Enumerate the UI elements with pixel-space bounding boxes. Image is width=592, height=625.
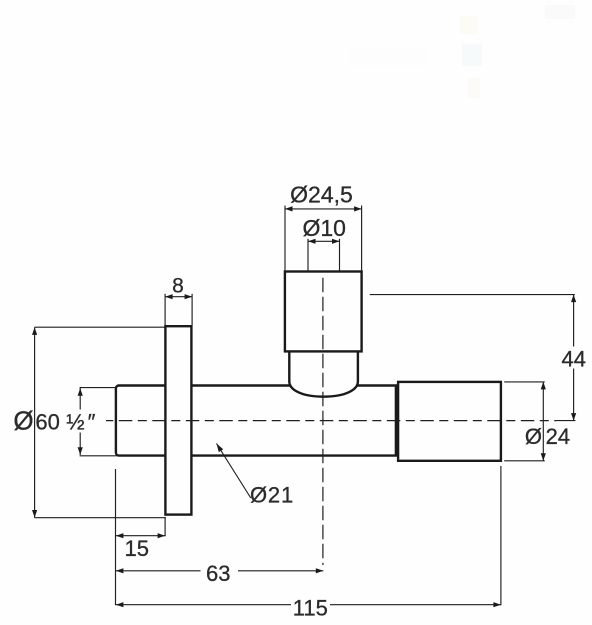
- svg-text:115: 115: [293, 596, 328, 621]
- svg-text:½″: ½″: [66, 410, 98, 435]
- svg-text:Ø10: Ø10: [302, 215, 345, 241]
- svg-text:Ø: Ø: [13, 406, 33, 436]
- svg-text:Ø: Ø: [525, 424, 542, 449]
- svg-text:60: 60: [35, 410, 59, 435]
- svg-text:Ø21: Ø21: [250, 482, 294, 507]
- svg-text:44: 44: [561, 347, 585, 372]
- svg-text:63: 63: [206, 561, 230, 586]
- svg-text:15: 15: [125, 536, 149, 561]
- svg-text:24: 24: [546, 424, 570, 449]
- svg-text:8: 8: [172, 275, 184, 298]
- svg-text:Ø24,5: Ø24,5: [290, 182, 353, 208]
